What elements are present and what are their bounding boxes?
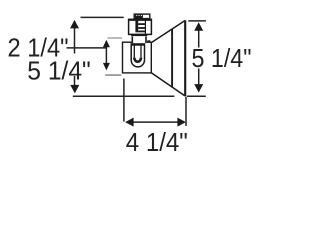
svg-text:4 1/4": 4 1/4" bbox=[126, 129, 188, 157]
svg-text:5 1/4": 5 1/4" bbox=[27, 57, 91, 85]
svg-text:5 1/4": 5 1/4" bbox=[192, 45, 252, 73]
